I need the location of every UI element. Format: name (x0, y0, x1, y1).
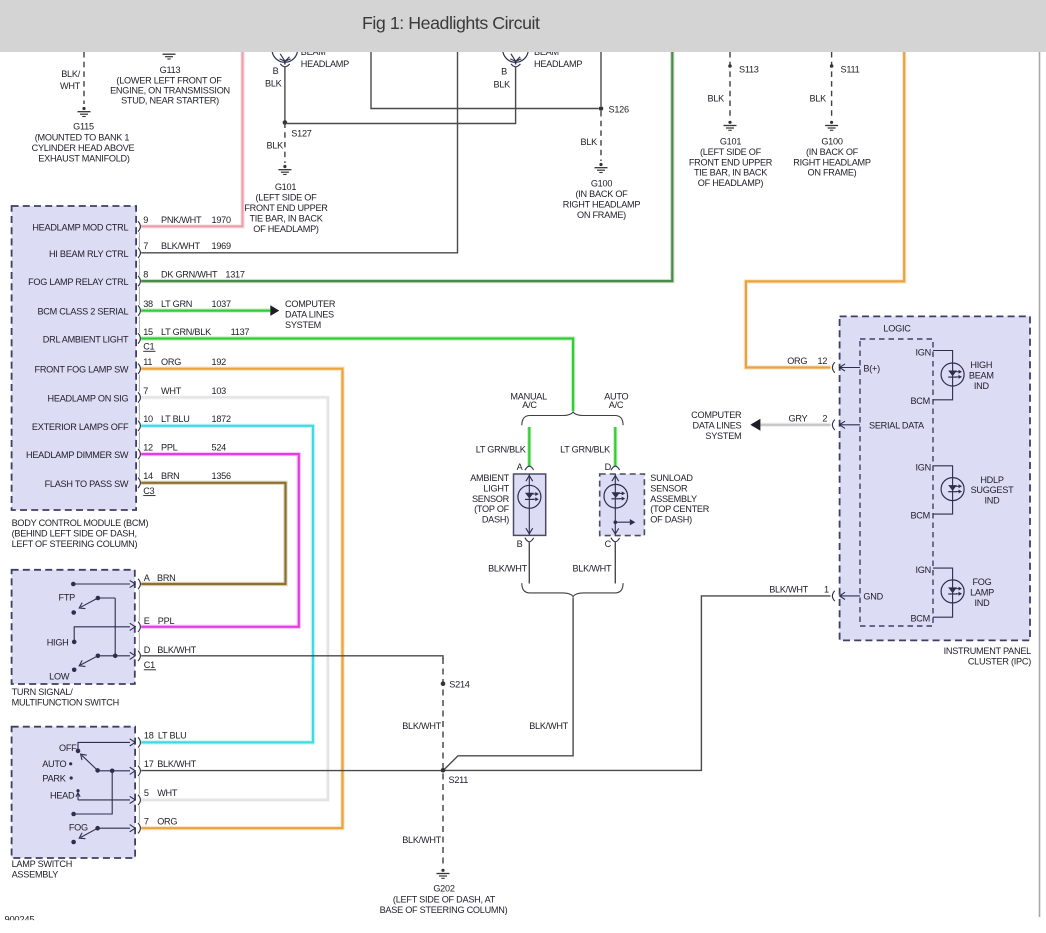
svg-text:HEADLAMP MOD CTRL: HEADLAMP MOD CTRL (32, 222, 128, 232)
ambient light sensor symbol (528, 474, 530, 535)
svg-text:(LEFT SIDE OF: (LEFT SIDE OF (700, 147, 762, 157)
svg-text:FOG: FOG (972, 577, 991, 587)
svg-text:HEADLAMP: HEADLAMP (534, 59, 582, 69)
svg-text:FRONT END UPPER: FRONT END UPPER (689, 157, 773, 167)
svg-text:COMPUTER: COMPUTER (285, 299, 336, 309)
svg-text:GRY: GRY (789, 413, 808, 423)
svg-text:OF HEADLAMP): OF HEADLAMP) (253, 224, 319, 234)
svg-text:(IN BACK OF: (IN BACK OF (575, 189, 628, 199)
svg-text:A/C: A/C (609, 400, 624, 410)
svg-text:7: 7 (144, 816, 149, 826)
svg-text:BASE OF STEERING COLUMN): BASE OF STEERING COLUMN) (380, 905, 508, 915)
svg-text:ON FRAME): ON FRAME) (577, 210, 626, 220)
svg-text:G100: G100 (591, 179, 612, 189)
headlamp left (beam headlamp, cut off) (272, 37, 298, 63)
svg-text:11: 11 (143, 357, 152, 367)
wire headlamp left to S127 (284, 67, 286, 123)
svg-text:103: 103 (212, 386, 227, 396)
svg-text:IGN: IGN (916, 565, 931, 575)
svg-text:PARK: PARK (42, 773, 65, 783)
svg-text:HEADLAMP DIMMER SW: HEADLAMP DIMMER SW (26, 450, 129, 460)
BCM connector C1 gray line (138, 232, 140, 247)
svg-text:S214: S214 (449, 680, 469, 690)
junction S214 (441, 681, 446, 686)
svg-text:ENGINE, ON TRANSMISSION: ENGINE, ON TRANSMISSION (110, 86, 230, 96)
wire S127 dashed to G101 (284, 123, 286, 164)
svg-text:ASSEMBLY: ASSEMBLY (12, 869, 59, 879)
svg-text:S127: S127 (291, 129, 311, 139)
IPC indicator FOG LAMP (933, 568, 953, 617)
ambient light sensor box (514, 474, 546, 535)
svg-text:15: 15 (143, 327, 153, 337)
svg-text:IGN: IGN (916, 463, 931, 473)
svg-text:(TOP CENTER: (TOP CENTER (650, 504, 709, 514)
turn signal contact to pin A (71, 582, 76, 587)
svg-text:ASSEMBLY: ASSEMBLY (650, 494, 697, 504)
turn signal LOW lever and pin D line (96, 654, 101, 659)
junction S126 (599, 106, 604, 111)
svg-text:SUNLOAD: SUNLOAD (650, 473, 693, 483)
sunload sensor assembly box (600, 474, 645, 536)
svg-text:FOG LAMP RELAY CTRL: FOG LAMP RELAY CTRL (28, 277, 128, 287)
svg-text:LT BLU: LT BLU (158, 731, 187, 741)
wire BLK/WHT 1969 vertical from top to BCM pin 7 (141, 52, 457, 253)
brace over sensors (522, 412, 623, 425)
sunload sensor symbol (614, 474, 616, 536)
svg-text:1317: 1317 (225, 270, 244, 280)
svg-text:LT GRN/BLK: LT GRN/BLK (476, 445, 526, 455)
svg-text:G202: G202 (433, 884, 454, 894)
svg-text:DK GRN/WHT: DK GRN/WHT (161, 270, 218, 280)
svg-text:SUGGEST: SUGGEST (971, 485, 1015, 495)
svg-text:PPL: PPL (161, 443, 178, 453)
svg-text:7: 7 (143, 241, 148, 251)
svg-text:BCM: BCM (910, 613, 930, 623)
svg-text:IGN: IGN (916, 347, 931, 357)
svg-text:BLK/WHT: BLK/WHT (572, 564, 611, 574)
svg-text:BLK/WHT: BLK/WHT (529, 721, 568, 731)
junction S211 (441, 768, 446, 773)
turn signal FTP branch to D (114, 598, 116, 656)
svg-text:BLK/WHT: BLK/WHT (402, 721, 441, 731)
wire headlamp right down and left to S127 (287, 67, 516, 124)
svg-text:FOG: FOG (69, 823, 88, 833)
svg-text:ORG: ORG (161, 357, 181, 367)
svg-text:1356: 1356 (212, 471, 231, 481)
svg-text:(MOUNTED TO BANK 1: (MOUNTED TO BANK 1 (35, 133, 130, 143)
svg-text:LT GRN: LT GRN (161, 299, 192, 309)
ground G202 (441, 869, 444, 872)
svg-text:18: 18 (144, 731, 154, 741)
IPC indicator HIGH BEAM (933, 351, 953, 400)
splice S111 dashed wire to G100 (831, 52, 833, 119)
arrow to computer data lines system (270, 305, 279, 316)
svg-text:C1: C1 (143, 342, 154, 352)
svg-text:HEADLAMP: HEADLAMP (301, 59, 349, 69)
svg-text:BEAM: BEAM (969, 371, 994, 381)
wire PPL 524 from BCM to turn signal pin E (141, 454, 299, 627)
wire above S126 from top (600, 52, 602, 106)
wire dashed S214 segment (442, 658, 444, 867)
svg-text:BODY CONTROL MODULE (BCM): BODY CONTROL MODULE (BCM) (12, 518, 149, 528)
svg-text:S113: S113 (739, 65, 759, 75)
wire LT GRN/BLK stub to sunload sensor pin D (613, 427, 617, 466)
svg-text:GND: GND (863, 592, 883, 602)
turn signal pin A (138, 579, 140, 589)
svg-text:WHT: WHT (157, 788, 178, 798)
svg-text:RIGHT HEADLAMP: RIGHT HEADLAMP (793, 157, 871, 167)
svg-text:(LEFT SIDE OF: (LEFT SIDE OF (256, 193, 318, 203)
instrument panel cluster IPC outer box (840, 316, 1030, 640)
svg-text:BLK/WHT: BLK/WHT (161, 241, 200, 251)
lamp switch OFF contact to pin 18 (78, 742, 130, 751)
lamp switch pin 17 (138, 766, 140, 776)
svg-text:(IN BACK OF: (IN BACK OF (806, 147, 859, 157)
svg-text:LIGHT: LIGHT (483, 483, 509, 493)
svg-text:IND: IND (974, 381, 990, 391)
wire LT BLU 1872 from BCM to lamp switch pin 18 (141, 426, 313, 743)
svg-text:B(+): B(+) (863, 363, 880, 373)
svg-text:14: 14 (143, 471, 153, 481)
title bar (0, 0, 1046, 52)
svg-text:DASH): DASH) (482, 515, 509, 525)
svg-text:LT GRN/BLK: LT GRN/BLK (560, 445, 610, 455)
lamp switch assembly box (12, 727, 136, 858)
svg-text:LEFT OF STEERING COLUMN): LEFT OF STEERING COLUMN) (12, 539, 138, 549)
headlamp left connector arc (280, 64, 289, 67)
svg-text:(BEHIND LEFT SIDE OF DASH,: (BEHIND LEFT SIDE OF DASH, (12, 529, 137, 539)
svg-text:HIGH: HIGH (970, 360, 992, 370)
svg-text:BCM: BCM (910, 510, 930, 520)
svg-text:SENSOR: SENSOR (472, 494, 510, 504)
wire sensors common BLK/WHT down to S211 (444, 598, 573, 771)
splice S113 dashed wire to G101 (729, 52, 731, 119)
svg-text:HIGH: HIGH (47, 637, 69, 647)
svg-text:B: B (517, 539, 523, 549)
wire WHT 103 from BCM to lamp switch pin 5 (141, 397, 328, 800)
svg-text:G100: G100 (821, 137, 842, 147)
svg-text:RIGHT HEADLAMP: RIGHT HEADLAMP (563, 200, 641, 210)
IPC pin 1 GND (832, 591, 834, 601)
svg-text:C3: C3 (143, 486, 154, 496)
svg-text:BLK: BLK (810, 94, 827, 104)
svg-text:7: 7 (143, 386, 148, 396)
svg-text:MULTIFUNCTION SWITCH: MULTIFUNCTION SWITCH (12, 698, 119, 708)
wire BLK/WHT from lamp switch pin 17 through S211 to IPC GND (141, 770, 443, 772)
svg-text:LAMP SWITCH: LAMP SWITCH (12, 859, 72, 869)
svg-text:EXTERIOR LAMPS OFF: EXTERIOR LAMPS OFF (32, 422, 129, 432)
junction S127 (283, 120, 288, 125)
sunload sensor output arrow (614, 520, 618, 524)
wire LT GRN/BLK 1137 from BCM pin 15 to sensor brace (141, 339, 573, 412)
svg-text:(LEFT SIDE OF DASH, AT: (LEFT SIDE OF DASH, AT (393, 894, 496, 904)
wire BLK/WHT dashed to G115 (83, 52, 85, 104)
lamp switch pin 7 (138, 823, 140, 833)
svg-text:LOW: LOW (49, 672, 70, 682)
wire LT GRN 1037 from BCM pin 38 to computer data lines arrow (141, 308, 270, 312)
svg-text:LT GRN/BLK: LT GRN/BLK (161, 327, 211, 337)
svg-text:PNK/WHT: PNK/WHT (161, 215, 202, 225)
arrow to computer data lines system right (750, 419, 760, 431)
svg-text:WHT: WHT (60, 81, 81, 91)
svg-text:AUTO: AUTO (42, 759, 66, 769)
right frame border (1039, 52, 1041, 917)
svg-text:BLK/WHT: BLK/WHT (769, 584, 808, 594)
svg-text:B: B (273, 66, 279, 76)
svg-text:FTP: FTP (59, 593, 76, 603)
lamp switch pin 17 line and branch (98, 770, 130, 772)
ground G115 (82, 107, 85, 110)
wire from top down to S126 horizontal (371, 52, 599, 109)
svg-text:AMBIENT: AMBIENT (470, 473, 509, 483)
svg-text:E: E (144, 616, 150, 626)
svg-text:38: 38 (143, 299, 153, 309)
svg-text:OF DASH): OF DASH) (650, 515, 692, 525)
svg-text:524: 524 (212, 443, 227, 453)
IPC pin 12 B(+) (832, 362, 834, 372)
svg-text:STUD, NEAR STARTER): STUD, NEAR STARTER) (121, 96, 219, 106)
svg-text:ORG: ORG (157, 816, 177, 826)
svg-text:LT BLU: LT BLU (161, 414, 190, 424)
svg-text:EXHAUST MANIFOLD): EXHAUST MANIFOLD) (38, 153, 130, 163)
svg-text:COMPUTER: COMPUTER (691, 410, 742, 420)
svg-text:SYSTEM: SYSTEM (285, 320, 321, 330)
svg-text:12: 12 (818, 356, 828, 366)
svg-text:8: 8 (143, 270, 148, 280)
svg-text:FLASH TO PASS SW: FLASH TO PASS SW (45, 479, 129, 489)
svg-text:S126: S126 (609, 104, 629, 114)
svg-text:BLK: BLK (494, 80, 511, 90)
svg-text:BLK/: BLK/ (61, 69, 80, 79)
svg-text:Fig 1: Headlights Circuit: Fig 1: Headlights Circuit (362, 13, 540, 33)
headlamp right (beam headlamp, cut off) (503, 37, 529, 63)
svg-text:1969: 1969 (212, 241, 231, 251)
brace under sensors (522, 583, 623, 596)
svg-text:BLK/WHT: BLK/WHT (488, 564, 527, 574)
wire DK GRN/WHT 1317 from BCM pin 8 to top (141, 52, 672, 281)
svg-text:BRN: BRN (161, 471, 180, 481)
headlamp right connector arc (511, 64, 520, 67)
svg-text:1872: 1872 (212, 414, 231, 424)
svg-text:DRL AMBIENT LIGHT: DRL AMBIENT LIGHT (43, 335, 129, 345)
wire LT GRN/BLK stub to ambient sensor pin A (527, 427, 531, 466)
svg-text:LOGIC: LOGIC (883, 324, 911, 334)
svg-text:1970: 1970 (212, 215, 231, 225)
svg-text:PPL: PPL (158, 616, 175, 626)
svg-text:BLK/WHT: BLK/WHT (402, 835, 441, 845)
ground G100 right (830, 121, 833, 124)
svg-text:IND: IND (985, 496, 1001, 506)
wire ORG 192 from BCM pin 11 to lamp switch FOG pin 7 (141, 369, 342, 829)
ground G101 left (283, 165, 286, 168)
lamp switch selector lever (95, 768, 100, 773)
lamp switch connector gray line (138, 748, 140, 765)
svg-text:G113: G113 (160, 65, 181, 75)
svg-text:2: 2 (822, 413, 827, 423)
svg-text:FRONT END UPPER: FRONT END UPPER (244, 203, 328, 213)
svg-text:G101: G101 (720, 137, 741, 147)
wire GRY serial data to computer data lines (752, 423, 831, 427)
ground G113 (163, 53, 176, 55)
IPC indicator HDLP SUGGEST (933, 466, 953, 514)
svg-text:ORG: ORG (787, 356, 807, 366)
lamp switch pin 18 (138, 737, 140, 747)
lamp switch pin 5 (138, 795, 140, 805)
wire PNK/WHT 1970 from BCM pin 9 up to top (141, 52, 242, 226)
wire BLK/WHT from turn signal pin D to S214 (141, 656, 443, 659)
svg-text:C: C (605, 539, 612, 549)
svg-text:12: 12 (143, 443, 153, 453)
svg-text:C1: C1 (144, 660, 155, 670)
svg-text:S111: S111 (841, 65, 860, 75)
svg-text:BLK: BLK (581, 137, 598, 147)
svg-text:WHT: WHT (161, 386, 182, 396)
svg-text:TIE BAR, IN BACK: TIE BAR, IN BACK (694, 168, 767, 178)
svg-text:HEADLAMP ON SIG: HEADLAMP ON SIG (48, 393, 129, 403)
svg-text:S211: S211 (449, 775, 469, 785)
svg-text:192: 192 (212, 357, 227, 367)
svg-text:ON FRAME): ON FRAME) (808, 168, 857, 178)
svg-text:BCM: BCM (910, 396, 930, 406)
svg-text:SENSOR: SENSOR (650, 483, 688, 493)
svg-text:CLUSTER (IPC): CLUSTER (IPC) (968, 657, 1031, 667)
svg-text:LAMP: LAMP (970, 588, 994, 598)
svg-text:HI BEAM RLY CTRL: HI BEAM RLY CTRL (49, 249, 129, 259)
svg-text:HDLP: HDLP (980, 475, 1004, 485)
IPC pin 2 SERIAL DATA (832, 420, 834, 430)
svg-text:INSTRUMENT PANEL: INSTRUMENT PANEL (944, 646, 1032, 656)
svg-text:G115: G115 (73, 122, 94, 132)
svg-text:B: B (501, 67, 507, 77)
svg-text:1: 1 (824, 584, 829, 594)
svg-text:1037: 1037 (212, 299, 231, 309)
svg-text:IND: IND (975, 598, 991, 608)
svg-text:D: D (605, 462, 612, 472)
svg-text:TIE BAR, IN BACK: TIE BAR, IN BACK (249, 214, 322, 224)
svg-text:BLK/WHT: BLK/WHT (157, 759, 196, 769)
svg-text:BLK: BLK (708, 94, 725, 104)
svg-text:G101: G101 (275, 182, 296, 192)
wire BLK/WHT from sunload pin C to brace (614, 542, 616, 584)
svg-text:(TOP OF: (TOP OF (474, 504, 510, 514)
svg-text:OFF: OFF (59, 743, 77, 753)
wire S126 dashed to G100 (600, 111, 602, 161)
BCM connector C3 gray line (138, 375, 140, 392)
svg-text:(LOWER LEFT FRONT OF: (LOWER LEFT FRONT OF (116, 75, 222, 85)
turn signal pin D (138, 651, 140, 661)
svg-text:10: 10 (143, 414, 153, 424)
svg-text:5: 5 (144, 788, 149, 798)
svg-text:TURN SIGNAL/: TURN SIGNAL/ (12, 687, 74, 697)
IPC logic inner box (860, 339, 933, 626)
svg-text:9: 9 (143, 215, 148, 225)
svg-text:BRN: BRN (157, 573, 176, 583)
svg-text:1137: 1137 (231, 327, 250, 337)
svg-text:OF HEADLAMP): OF HEADLAMP) (698, 178, 764, 188)
svg-text:BCM CLASS 2 SERIAL: BCM CLASS 2 SERIAL (37, 307, 128, 317)
svg-text:SERIAL DATA: SERIAL DATA (869, 421, 925, 431)
ground G101 right (728, 121, 731, 124)
svg-text:HEAD: HEAD (50, 791, 75, 801)
svg-text:BLK/WHT: BLK/WHT (157, 645, 196, 655)
svg-text:DATA LINES: DATA LINES (285, 309, 334, 319)
BCM box (Body Control Module) (12, 206, 137, 510)
turn signal connector gray line (138, 590, 140, 621)
svg-text:17: 17 (144, 759, 154, 769)
ground G100 left (599, 163, 602, 166)
svg-text:FRONT FOG LAMP SW: FRONT FOG LAMP SW (35, 365, 129, 375)
svg-text:SYSTEM: SYSTEM (705, 431, 741, 441)
svg-text:A/C: A/C (522, 400, 537, 410)
svg-text:BLK: BLK (265, 79, 282, 89)
wire BRN 1356 from BCM to turn signal pin A (141, 483, 285, 584)
svg-text:DATA LINES: DATA LINES (693, 421, 742, 431)
turn signal / multifunction switch box (12, 570, 135, 684)
svg-text:CYLINDER HEAD ABOVE: CYLINDER HEAD ABOVE (32, 143, 135, 153)
turn signal pin E (138, 622, 140, 632)
wire ORG from top to IPC B(+) (746, 52, 904, 368)
svg-text:D: D (144, 645, 151, 655)
wire BLK/WHT from ambient pin B to brace (528, 542, 530, 584)
svg-text:BLK: BLK (267, 141, 284, 151)
